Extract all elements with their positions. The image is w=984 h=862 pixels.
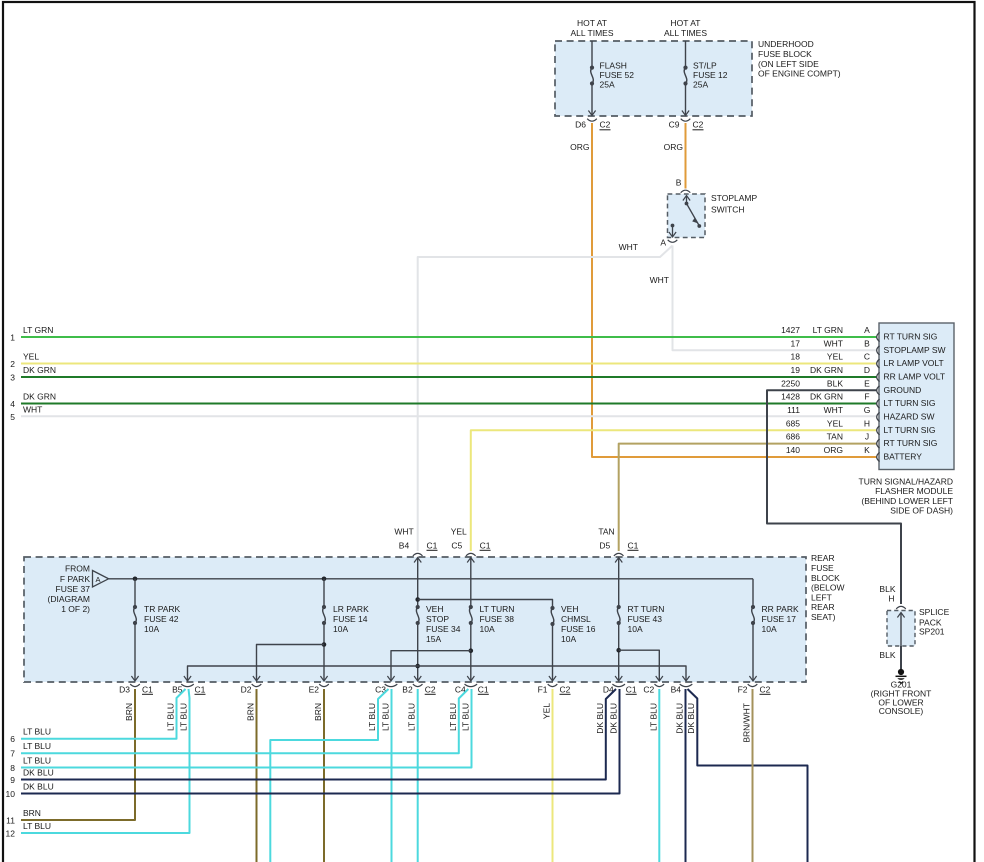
- svg-text:LT BLU: LT BLU: [448, 703, 458, 731]
- svg-text:YEL: YEL: [451, 527, 467, 537]
- svg-text:LT BLU: LT BLU: [648, 703, 658, 731]
- label DK BLU (B4 left): [675, 703, 685, 734]
- svg-text:B: B: [676, 178, 682, 188]
- svg-text:C2: C2: [760, 685, 771, 695]
- svg-text:HAZARD SW: HAZARD SW: [884, 411, 935, 421]
- svg-text:YEL: YEL: [23, 352, 39, 362]
- splice pack internal wire: [897, 613, 904, 647]
- wire ORG 140 from fuse 52 to module pin K: [592, 123, 877, 457]
- svg-text:FUSE 16: FUSE 16: [561, 624, 596, 634]
- connector C4 at rear fuse block bottom: [455, 684, 489, 694]
- svg-text:LT BLU: LT BLU: [23, 756, 51, 766]
- svg-text:17: 17: [791, 338, 801, 348]
- branch LT TURN to C3: [387, 651, 470, 681]
- svg-text:11: 11: [6, 816, 15, 826]
- svg-text:F1: F1: [538, 685, 548, 695]
- svg-text:25A: 25A: [693, 80, 708, 90]
- wire TAN 686 module J to rear fuse block D5: [619, 444, 877, 551]
- label row 9 DK BLU: [10, 768, 53, 786]
- module pin H LT TURN SIG: [786, 418, 936, 435]
- svg-text:YEL: YEL: [827, 418, 843, 428]
- wire row 2 YEL: [21, 363, 877, 365]
- svg-text:15A: 15A: [426, 634, 441, 644]
- svg-text:FROM: FROM: [65, 564, 90, 574]
- label BRN (D2): [246, 703, 256, 721]
- svg-text:7: 7: [10, 749, 15, 759]
- label B: [676, 178, 682, 188]
- wire row 4 DK GRN: [21, 403, 877, 405]
- svg-text:LT TURN SIG: LT TURN SIG: [884, 425, 936, 435]
- wire DK BLU D4 to row 9: [21, 689, 616, 780]
- svg-text:10A: 10A: [144, 624, 159, 634]
- svg-text:C5: C5: [451, 541, 462, 551]
- svg-text:A: A: [95, 575, 100, 584]
- label row 5: [10, 404, 42, 422]
- svg-text:B2: B2: [402, 685, 413, 695]
- svg-text:B: B: [864, 338, 870, 348]
- svg-text:6: 6: [10, 734, 15, 744]
- label LT BLU (B5 right): [179, 703, 189, 731]
- connector F1 at rear fuse block bottom: [538, 684, 571, 694]
- svg-text:BRN: BRN: [124, 703, 134, 721]
- svg-text:G: G: [864, 405, 871, 415]
- svg-text:WHT: WHT: [824, 405, 843, 415]
- svg-text:D6: D6: [575, 120, 586, 130]
- svg-text:1427: 1427: [781, 325, 800, 335]
- svg-text:C1: C1: [626, 685, 637, 695]
- svg-text:FUSE BLOCK: FUSE BLOCK: [758, 49, 812, 59]
- svg-text:YEL: YEL: [827, 352, 843, 362]
- wire LT BLU C2 down: [658, 689, 660, 862]
- connector B2 at rear fuse block bottom: [402, 684, 436, 694]
- connector B5 at rear fuse block bottom: [172, 684, 206, 694]
- svg-text:C1: C1: [195, 685, 206, 695]
- wire LT BLU C3 jog down: [270, 689, 388, 862]
- svg-text:140: 140: [786, 445, 800, 455]
- module pin J RT TURN SIG: [786, 432, 938, 449]
- svg-text:REAR: REAR: [811, 602, 835, 612]
- svg-text:LEFT: LEFT: [811, 592, 832, 602]
- svg-text:ORG: ORG: [664, 142, 683, 152]
- svg-text:TAN: TAN: [598, 527, 614, 537]
- connector F2 at rear fuse block bottom: [738, 684, 771, 694]
- label YEL (F1): [542, 703, 552, 719]
- svg-text:A: A: [864, 325, 870, 335]
- svg-text:FUSE 12: FUSE 12: [693, 70, 728, 80]
- svg-text:686: 686: [786, 432, 800, 442]
- fuse LR PARK FUSE 14 10A: [320, 579, 369, 681]
- svg-text:RR PARK: RR PARK: [762, 604, 799, 614]
- connector D4 at rear fuse block bottom: [603, 684, 637, 694]
- wire LT BLU B5 to row 12: [21, 689, 190, 833]
- label STOPLAMP SWITCH: [711, 193, 757, 215]
- module pin D RR LAMP VOLT: [791, 365, 946, 382]
- svg-text:19: 19: [791, 365, 801, 375]
- svg-text:H: H: [888, 594, 894, 604]
- wire LT BLU C3 down: [391, 689, 393, 862]
- svg-text:FUSE 42: FUSE 42: [144, 614, 179, 624]
- connector C2 at rear fuse block bottom: [643, 684, 664, 694]
- svg-text:YEL: YEL: [542, 703, 552, 719]
- label LT BLU (C2): [648, 703, 658, 731]
- label REAR FUSE BLOCK (BELOW LEFT REAR SEAT): [811, 553, 845, 622]
- svg-text:C2: C2: [600, 120, 611, 130]
- svg-text:10A: 10A: [762, 624, 777, 634]
- wire YEL F1 down: [552, 689, 554, 862]
- bus wire from triangle A: [109, 578, 753, 580]
- svg-text:REAR: REAR: [811, 553, 835, 563]
- label BLK (below splice): [879, 650, 895, 660]
- connector D3 at rear fuse block bottom: [119, 684, 153, 694]
- svg-text:DK GRN: DK GRN: [810, 365, 843, 375]
- turn signal/hazard flasher module box: [879, 323, 954, 470]
- svg-text:ALL TIMES: ALL TIMES: [571, 28, 614, 38]
- module pin K BATTERY: [786, 445, 922, 462]
- label row 8 LT BLU: [10, 756, 51, 774]
- svg-text:STOPLAMP: STOPLAMP: [711, 193, 757, 203]
- svg-text:DK BLU: DK BLU: [609, 703, 619, 734]
- connector C3 at rear fuse block bottom: [375, 684, 397, 694]
- svg-text:BRN: BRN: [23, 808, 41, 818]
- module pin E GROUND: [781, 378, 921, 395]
- entry connector C5 C1 (YEL): [451, 527, 491, 563]
- internal stop bus to B5 and B4: [184, 666, 690, 681]
- stoplamp switch contacts: [669, 196, 701, 238]
- svg-text:10A: 10A: [628, 624, 643, 634]
- wire WHT stoplamp A to rear fuse block B4: [418, 246, 673, 552]
- svg-text:GROUND: GROUND: [884, 385, 922, 395]
- svg-text:LT BLU: LT BLU: [407, 703, 417, 731]
- svg-text:LT BLU: LT BLU: [23, 727, 51, 737]
- module pin B STOPLAMP SW: [791, 338, 946, 355]
- stoplamp switch box: [668, 194, 706, 238]
- label HOT AT ALL TIMES (left): [571, 18, 614, 38]
- label WHT (vertical run): [650, 275, 669, 285]
- svg-text:F2: F2: [738, 685, 748, 695]
- svg-text:10: 10: [6, 789, 16, 799]
- svg-text:BLK: BLK: [879, 650, 895, 660]
- branch LR PARK to D2: [253, 642, 326, 681]
- svg-text:BLK: BLK: [827, 378, 843, 388]
- svg-text:4: 4: [10, 399, 15, 409]
- svg-text:ORG: ORG: [570, 142, 589, 152]
- label DK BLU (D4 right): [609, 703, 619, 734]
- wire row 3 DK GRN: [21, 376, 877, 378]
- svg-text:CONSOLE): CONSOLE): [879, 706, 924, 716]
- label TURN SIGNAL/HAZARD FLASHER MODULE (BEHIND LOWER LEFT SIDE OF DASH): [859, 476, 954, 515]
- svg-text:C1: C1: [142, 685, 153, 695]
- svg-text:FUSE 17: FUSE 17: [762, 614, 797, 624]
- wire BRN/WHT F2 down: [752, 689, 754, 862]
- wire DK BLU B4 jog right down: [688, 689, 808, 862]
- svg-text:3: 3: [10, 373, 15, 383]
- svg-text:BRN: BRN: [313, 703, 323, 721]
- svg-text:C1: C1: [427, 541, 438, 551]
- svg-text:LT GRN: LT GRN: [813, 325, 843, 335]
- svg-text:BATTERY: BATTERY: [884, 451, 923, 461]
- wire LT BLU B2 down: [417, 689, 419, 862]
- svg-text:D3: D3: [119, 685, 130, 695]
- svg-text:FLASH: FLASH: [600, 61, 627, 71]
- junction at TR PARK fuse: [133, 577, 138, 582]
- svg-text:E: E: [864, 378, 870, 388]
- svg-text:LT BLU: LT BLU: [166, 703, 176, 731]
- svg-text:DK GRN: DK GRN: [23, 392, 56, 402]
- svg-text:HOT AT: HOT AT: [577, 18, 607, 28]
- svg-text:ORG: ORG: [824, 445, 843, 455]
- svg-text:WHT: WHT: [394, 527, 413, 537]
- svg-text:1: 1: [10, 333, 15, 343]
- svg-text:FUSE 52: FUSE 52: [600, 70, 635, 80]
- label A: [660, 238, 666, 248]
- svg-text:C2: C2: [560, 685, 571, 695]
- svg-text:STOP: STOP: [426, 614, 449, 624]
- label row 2: [10, 352, 39, 370]
- svg-text:UNDERHOOD: UNDERHOOD: [758, 39, 814, 49]
- svg-text:RT TURN SIG: RT TURN SIG: [884, 438, 938, 448]
- wire LT BLU C4 to row 7: [21, 689, 468, 753]
- label LT BLU (B5 left): [166, 703, 176, 731]
- wire BLK 2250 module E to splice pack: [767, 390, 901, 604]
- svg-text:RT TURN SIG: RT TURN SIG: [884, 332, 938, 342]
- svg-text:FUSE 37: FUSE 37: [56, 584, 91, 594]
- svg-text:TR PARK: TR PARK: [144, 604, 181, 614]
- svg-text:DK BLU: DK BLU: [675, 703, 685, 734]
- svg-text:111: 111: [787, 405, 800, 415]
- svg-text:SWITCH: SWITCH: [711, 205, 745, 215]
- module pin A RT TURN SIG: [781, 325, 937, 342]
- svg-text:ALL TIMES: ALL TIMES: [664, 28, 707, 38]
- svg-text:TURN SIGNAL/HAZARD: TURN SIGNAL/HAZARD: [859, 476, 953, 486]
- label SPLICE PACK SP201: [919, 607, 950, 637]
- svg-text:SEAT): SEAT): [811, 612, 836, 622]
- label row 3: [10, 365, 56, 383]
- svg-text:VEH: VEH: [426, 604, 443, 614]
- svg-text:LT BLU: LT BLU: [367, 703, 377, 731]
- svg-text:RT TURN: RT TURN: [628, 604, 665, 614]
- svg-text:C: C: [864, 352, 870, 362]
- label row 1: [10, 325, 53, 343]
- wire row 1 LT GRN: [21, 336, 877, 338]
- underhood fuse block box: [555, 41, 752, 116]
- svg-text:LR LAMP VOLT: LR LAMP VOLT: [884, 358, 944, 368]
- label WHT (horizontal run): [619, 242, 638, 252]
- svg-text:F: F: [864, 392, 869, 402]
- fuse RR PARK FUSE 17 10A: [749, 579, 799, 681]
- wire splice to ground: [900, 646, 902, 669]
- svg-text:DK BLU: DK BLU: [23, 768, 54, 778]
- svg-text:STOPLAMP SW: STOPLAMP SW: [884, 345, 946, 355]
- label row 7 LT BLU: [10, 741, 51, 759]
- svg-text:OF ENGINE COMPT): OF ENGINE COMPT): [758, 69, 841, 79]
- wire WHT stoplamp A to module pin B: [673, 246, 878, 351]
- svg-text:FUSE 34: FUSE 34: [426, 624, 461, 634]
- svg-text:F PARK: F PARK: [60, 574, 90, 584]
- svg-text:CHMSL: CHMSL: [561, 614, 591, 624]
- svg-text:DK BLU: DK BLU: [686, 703, 696, 734]
- label G201 (RIGHT FRONT OF LOWER CONSOLE): [871, 680, 932, 716]
- svg-text:10A: 10A: [333, 624, 348, 634]
- svg-text:BRN: BRN: [246, 703, 256, 721]
- svg-text:D: D: [864, 365, 870, 375]
- svg-text:18: 18: [791, 352, 801, 362]
- label LT BLU (B2): [407, 703, 417, 731]
- svg-text:8: 8: [10, 763, 15, 773]
- svg-text:FUSE 43: FUSE 43: [628, 614, 663, 624]
- connector E2 at rear fuse block bottom: [309, 684, 329, 694]
- label BRN/WHT (F2): [742, 703, 752, 743]
- svg-text:LT GRN: LT GRN: [23, 325, 53, 335]
- svg-text:BLK: BLK: [879, 584, 895, 594]
- entry connector B4 C1 (WHT): [394, 527, 437, 563]
- wire row 5 WHT: [21, 415, 877, 417]
- module pin F LT TURN SIG: [781, 392, 935, 409]
- svg-text:DK GRN: DK GRN: [23, 365, 56, 375]
- fuse ST/LP FUSE 12 25A: [682, 61, 728, 116]
- svg-text:SIDE OF DASH): SIDE OF DASH): [890, 506, 953, 516]
- wire feed into ST/LP fuse: [685, 41, 687, 68]
- label LT BLU (C4 left): [448, 703, 458, 731]
- module pin C LR LAMP VOLT: [791, 352, 944, 369]
- fuse VEH CHMSL FUSE 16 10A: [549, 604, 596, 681]
- label DK BLU (B4 right): [686, 703, 696, 734]
- svg-text:WHT: WHT: [23, 404, 42, 414]
- label LT BLU (C3 right): [381, 703, 391, 731]
- branch RT TURN to C2: [619, 650, 663, 681]
- label HOT AT ALL TIMES (right): [664, 18, 707, 38]
- rear fuse block box: [24, 557, 806, 682]
- svg-text:D2: D2: [241, 685, 252, 695]
- svg-text:VEH: VEH: [561, 604, 578, 614]
- svg-text:ST/LP: ST/LP: [693, 61, 717, 71]
- svg-text:C1: C1: [480, 541, 491, 551]
- fuse RT TURN FUSE 43 10A: [615, 558, 664, 682]
- connector D2 at rear fuse block bottom: [241, 684, 262, 694]
- svg-text:B4: B4: [399, 541, 410, 551]
- svg-text:FLASHER MODULE: FLASHER MODULE: [875, 486, 953, 496]
- svg-text:(ON LEFT SIDE: (ON LEFT SIDE: [758, 59, 819, 69]
- svg-text:SP201: SP201: [919, 627, 945, 637]
- svg-text:9: 9: [10, 775, 15, 785]
- svg-text:LT BLU: LT BLU: [179, 703, 189, 731]
- svg-text:A: A: [660, 238, 666, 248]
- svg-text:SPLICE: SPLICE: [919, 607, 950, 617]
- svg-text:LT BLU: LT BLU: [461, 703, 471, 731]
- svg-text:J: J: [865, 432, 869, 442]
- svg-text:10A: 10A: [561, 634, 576, 644]
- label row 11 BRN: [6, 808, 41, 826]
- svg-text:RR LAMP VOLT: RR LAMP VOLT: [884, 371, 946, 381]
- branch to VEH CHMSL fuse: [418, 600, 553, 609]
- svg-text:(BEHIND LOWER LEFT: (BEHIND LOWER LEFT: [861, 496, 953, 506]
- fuse VEH STOP FUSE 34 15A: [414, 558, 461, 682]
- wire LT BLU C4 to row 8: [21, 689, 472, 768]
- wire DK BLU D4 to row 10: [21, 689, 620, 794]
- svg-text:HOT AT: HOT AT: [671, 18, 701, 28]
- entry connector D5 C1 (TAN): [598, 527, 638, 563]
- svg-text:C1: C1: [478, 685, 489, 695]
- feed triangle A: [93, 571, 109, 588]
- svg-text:LT BLU: LT BLU: [23, 821, 51, 831]
- connector D6 C2: [575, 119, 611, 130]
- svg-text:DK GRN: DK GRN: [810, 392, 843, 402]
- svg-text:12: 12: [6, 829, 16, 839]
- wire BRN D2 down: [256, 689, 258, 862]
- label BLK H: [879, 584, 895, 604]
- wire BRN D3 to row 11: [21, 689, 135, 820]
- ground G201 symbol: [896, 669, 907, 684]
- svg-text:C2: C2: [425, 685, 436, 695]
- label FROM F PARK FUSE 37 (DIAGRAM 1 OF 2): [48, 564, 91, 614]
- connector H: [896, 606, 906, 609]
- svg-text:10A: 10A: [480, 624, 495, 634]
- svg-text:WHT: WHT: [619, 242, 638, 252]
- wire LT BLU B5 to row 6: [21, 689, 186, 739]
- svg-text:BLOCK: BLOCK: [811, 573, 840, 583]
- wire DK BLU B4 down: [685, 689, 687, 862]
- connector A of stoplamp switch: [668, 240, 678, 243]
- svg-text:LT BLU: LT BLU: [23, 741, 51, 751]
- svg-text:1428: 1428: [781, 392, 800, 402]
- svg-text:685: 685: [786, 418, 800, 428]
- module pin G HAZARD SW: [787, 405, 934, 422]
- svg-text:DK BLU: DK BLU: [23, 782, 54, 792]
- svg-text:D5: D5: [599, 541, 610, 551]
- svg-text:C9: C9: [669, 120, 680, 130]
- svg-text:2: 2: [10, 359, 15, 369]
- fuse FLASH FUSE 52 25A: [588, 61, 634, 116]
- label BRN (D3): [124, 703, 134, 721]
- svg-text:C1: C1: [628, 541, 639, 551]
- wire BRN E2 down: [323, 689, 325, 862]
- svg-text:WHT: WHT: [824, 338, 843, 348]
- label row 10 DK BLU: [6, 782, 54, 800]
- svg-text:E2: E2: [309, 685, 320, 695]
- label row 6 LT BLU: [10, 727, 51, 745]
- svg-text:2250: 2250: [781, 378, 800, 388]
- label DK BLU (D4 left): [595, 703, 605, 734]
- svg-text:LT BLU: LT BLU: [381, 703, 391, 731]
- svg-text:1 OF 2): 1 OF 2): [61, 604, 90, 614]
- svg-text:TAN: TAN: [827, 432, 843, 442]
- connector B of stoplamp switch: [681, 190, 691, 193]
- svg-text:5: 5: [10, 412, 15, 422]
- svg-text:B4: B4: [671, 685, 682, 695]
- fuse LT TURN FUSE 38 10A: [467, 558, 514, 682]
- svg-text:(BELOW: (BELOW: [811, 583, 845, 593]
- svg-text:LR PARK: LR PARK: [333, 604, 369, 614]
- svg-text:WHT: WHT: [650, 275, 669, 285]
- label UNDERHOOD FUSE BLOCK (ON LEFT SIDE OF ENGINE COMPT): [758, 39, 841, 79]
- junction at LR PARK fuse: [322, 577, 327, 582]
- connector B4 at rear fuse block bottom: [671, 684, 693, 694]
- wire feed into FLASH fuse: [591, 41, 593, 68]
- label BRN (E2): [313, 703, 323, 721]
- label ORG (right wire): [664, 142, 683, 152]
- wire ORG from fuse 12 to stoplamp switch B: [685, 123, 687, 189]
- splice pack SP201 box: [887, 611, 915, 647]
- svg-text:C2: C2: [693, 120, 704, 130]
- label LT BLU (C3 left): [367, 703, 377, 731]
- connector C9 C2: [669, 119, 704, 130]
- label row 4: [10, 392, 56, 410]
- svg-text:H: H: [864, 418, 870, 428]
- svg-text:BRN/WHT: BRN/WHT: [742, 703, 752, 743]
- svg-text:LT TURN: LT TURN: [480, 604, 515, 614]
- label row 12 LT BLU: [6, 821, 52, 839]
- label ORG (left wire): [570, 142, 589, 152]
- svg-text:25A: 25A: [600, 80, 615, 90]
